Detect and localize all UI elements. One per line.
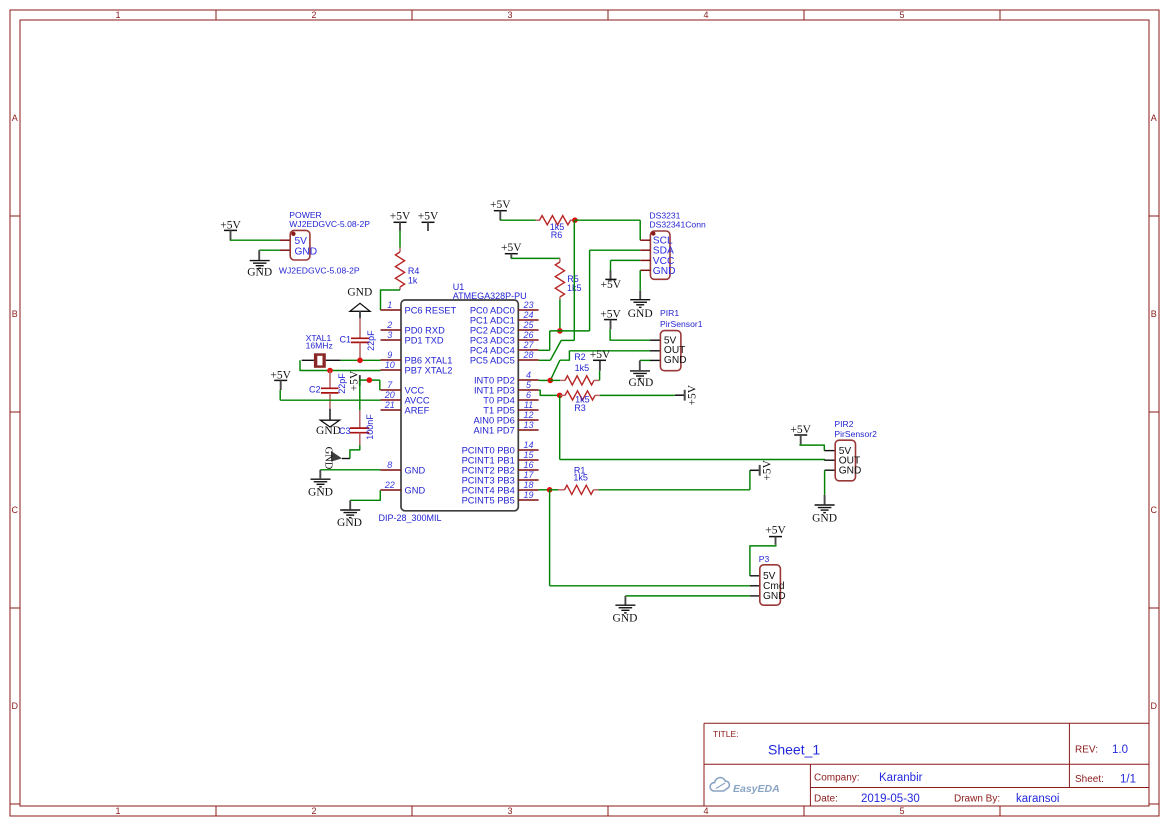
svg-text:5: 5 bbox=[899, 10, 904, 20]
svg-text:11: 11 bbox=[524, 400, 533, 410]
svg-text:GND: GND bbox=[295, 246, 318, 257]
svg-text:PIR1: PIR1 bbox=[660, 308, 679, 318]
svg-text:14: 14 bbox=[523, 440, 533, 450]
svg-text:D: D bbox=[1150, 701, 1157, 711]
svg-text:PD0 RXD: PD0 RXD bbox=[405, 325, 446, 335]
svg-text:GND: GND bbox=[763, 591, 786, 602]
svg-text:22: 22 bbox=[384, 480, 395, 490]
svg-text:16MHz: 16MHz bbox=[306, 341, 333, 351]
svg-text:PirSensor1: PirSensor1 bbox=[660, 319, 703, 329]
svg-text:TITLE:: TITLE: bbox=[713, 729, 739, 739]
svg-text:13: 13 bbox=[523, 420, 533, 430]
svg-text:AREF: AREF bbox=[405, 405, 430, 415]
svg-text:GND: GND bbox=[337, 517, 362, 529]
svg-text:karansoi: karansoi bbox=[1016, 793, 1059, 805]
svg-text:18: 18 bbox=[523, 480, 533, 490]
svg-text:VCC: VCC bbox=[405, 385, 425, 395]
svg-text:EasyEDA: EasyEDA bbox=[733, 783, 780, 795]
svg-text:2: 2 bbox=[311, 10, 316, 20]
svg-text:PC2 ADC2: PC2 ADC2 bbox=[470, 325, 515, 335]
svg-text:DS32341Conn: DS32341Conn bbox=[649, 220, 706, 230]
svg-text:1k: 1k bbox=[408, 275, 418, 285]
svg-text:4: 4 bbox=[703, 10, 708, 20]
svg-text:WJ2EDGVC-5.08-2P: WJ2EDGVC-5.08-2P bbox=[289, 219, 370, 229]
svg-text:C3: C3 bbox=[339, 426, 351, 436]
svg-text:GND: GND bbox=[628, 308, 653, 320]
svg-text:P3: P3 bbox=[759, 554, 770, 564]
svg-text:Date:: Date: bbox=[814, 794, 838, 805]
svg-text:PCINT5 PB5: PCINT5 PB5 bbox=[462, 495, 515, 505]
svg-text:PCINT0 PB0: PCINT0 PB0 bbox=[462, 445, 515, 455]
svg-text:1.0: 1.0 bbox=[1112, 744, 1128, 756]
svg-text:PCINT4 PB4: PCINT4 PB4 bbox=[462, 485, 515, 495]
svg-text:GND: GND bbox=[247, 266, 272, 278]
svg-text:20: 20 bbox=[384, 390, 395, 400]
svg-text:3: 3 bbox=[507, 806, 512, 816]
svg-text:+5V: +5V bbox=[220, 219, 241, 231]
svg-text:3: 3 bbox=[387, 330, 392, 340]
svg-text:2: 2 bbox=[386, 320, 392, 330]
svg-text:PCINT3 PB3: PCINT3 PB3 bbox=[462, 475, 515, 485]
svg-text:22pF: 22pF bbox=[366, 330, 376, 351]
svg-text:T0 PD4: T0 PD4 bbox=[483, 395, 515, 405]
svg-text:28: 28 bbox=[522, 350, 533, 360]
svg-text:R2: R2 bbox=[574, 352, 586, 362]
svg-text:PC5 ADC5: PC5 ADC5 bbox=[470, 355, 515, 365]
svg-text:GND: GND bbox=[613, 613, 638, 625]
svg-text:22pF: 22pF bbox=[337, 373, 347, 394]
svg-text:1: 1 bbox=[115, 806, 120, 816]
svg-text:PC1 ADC1: PC1 ADC1 bbox=[470, 315, 515, 325]
svg-text:1: 1 bbox=[115, 10, 120, 20]
svg-text:PC3 ADC3: PC3 ADC3 bbox=[470, 335, 515, 345]
svg-text:5: 5 bbox=[899, 806, 904, 816]
svg-text:GND: GND bbox=[323, 447, 334, 470]
svg-text:+5V: +5V bbox=[490, 199, 511, 211]
svg-text:+5V: +5V bbox=[418, 211, 439, 223]
svg-text:C: C bbox=[1150, 505, 1157, 515]
svg-text:+5V: +5V bbox=[687, 384, 699, 405]
svg-text:10: 10 bbox=[385, 360, 395, 370]
svg-text:B: B bbox=[12, 309, 18, 319]
svg-text:Company:: Company: bbox=[814, 773, 860, 784]
svg-text:3: 3 bbox=[507, 10, 512, 20]
svg-text:PC4 ADC4: PC4 ADC4 bbox=[470, 345, 515, 355]
svg-text:GND: GND bbox=[405, 465, 426, 475]
svg-text:+5V: +5V bbox=[270, 369, 291, 381]
svg-text:15: 15 bbox=[523, 450, 534, 460]
svg-text:1/1: 1/1 bbox=[1120, 773, 1136, 785]
svg-text:17: 17 bbox=[523, 470, 534, 480]
svg-text:+5V: +5V bbox=[765, 524, 786, 536]
svg-text:AIN1 PD7: AIN1 PD7 bbox=[473, 425, 514, 435]
svg-text:R3: R3 bbox=[574, 403, 586, 413]
svg-text:6: 6 bbox=[526, 390, 531, 400]
svg-text:GND: GND bbox=[628, 377, 653, 389]
svg-text:PIR2: PIR2 bbox=[834, 419, 853, 429]
svg-text:Drawn By:: Drawn By: bbox=[954, 794, 1000, 805]
svg-text:GND: GND bbox=[347, 286, 372, 298]
svg-text:21: 21 bbox=[384, 400, 395, 410]
svg-text:5V: 5V bbox=[295, 236, 308, 247]
svg-text:2: 2 bbox=[311, 806, 316, 816]
svg-text:1k5: 1k5 bbox=[575, 363, 590, 373]
svg-text:19: 19 bbox=[523, 490, 533, 500]
svg-text:23: 23 bbox=[522, 300, 533, 310]
svg-text:GND: GND bbox=[405, 485, 426, 495]
svg-text:+5V: +5V bbox=[349, 370, 361, 391]
svg-text:PirSensor2: PirSensor2 bbox=[834, 429, 877, 439]
svg-text:24: 24 bbox=[522, 310, 533, 320]
svg-text:26: 26 bbox=[522, 330, 533, 340]
svg-text:+5V: +5V bbox=[600, 308, 621, 320]
svg-text:AIN0 PD6: AIN0 PD6 bbox=[473, 415, 514, 425]
svg-text:B: B bbox=[1151, 309, 1157, 319]
svg-text:2019-05-30: 2019-05-30 bbox=[861, 793, 920, 805]
svg-text:GND: GND bbox=[839, 466, 862, 477]
svg-text:PD1 TXD: PD1 TXD bbox=[405, 335, 444, 345]
svg-text:27: 27 bbox=[522, 340, 534, 350]
svg-text:T1 PD5: T1 PD5 bbox=[483, 405, 515, 415]
svg-text:Sheet_1: Sheet_1 bbox=[768, 742, 820, 758]
svg-text:1: 1 bbox=[387, 300, 392, 310]
svg-text:+5V: +5V bbox=[501, 242, 522, 254]
svg-text:Sheet:: Sheet: bbox=[1075, 774, 1104, 785]
svg-text:PB7 XTAL2: PB7 XTAL2 bbox=[405, 365, 453, 375]
svg-text:PCINT2 PB2: PCINT2 PB2 bbox=[462, 465, 515, 475]
svg-text:PC0 ADC0: PC0 ADC0 bbox=[470, 305, 515, 315]
svg-text:C: C bbox=[11, 505, 18, 515]
svg-text:R6: R6 bbox=[551, 230, 563, 240]
svg-text:A: A bbox=[1151, 113, 1157, 123]
svg-text:100nF: 100nF bbox=[365, 414, 375, 440]
svg-text:+5V: +5V bbox=[762, 459, 774, 480]
svg-text:C1: C1 bbox=[340, 335, 352, 345]
svg-text:GND: GND bbox=[316, 425, 341, 437]
svg-text:DIP-28_300MIL: DIP-28_300MIL bbox=[379, 513, 442, 523]
svg-text:PCINT1 PB1: PCINT1 PB1 bbox=[462, 455, 515, 465]
svg-text:A: A bbox=[12, 113, 18, 123]
svg-text:INT1 PD3: INT1 PD3 bbox=[474, 385, 515, 395]
svg-text:+5V: +5V bbox=[601, 279, 622, 291]
svg-text:GND: GND bbox=[664, 355, 687, 366]
svg-text:1k5: 1k5 bbox=[573, 473, 588, 483]
svg-text:12: 12 bbox=[523, 410, 533, 420]
svg-text:GND: GND bbox=[812, 513, 837, 525]
svg-text:PC6 RESET: PC6 RESET bbox=[405, 305, 457, 315]
svg-text:Karanbir: Karanbir bbox=[879, 772, 923, 784]
svg-text:9: 9 bbox=[387, 350, 392, 360]
svg-text:INT0 PD2: INT0 PD2 bbox=[474, 375, 515, 385]
svg-text:AVCC: AVCC bbox=[405, 395, 430, 405]
svg-text:+5V: +5V bbox=[590, 349, 611, 361]
svg-text:4: 4 bbox=[526, 370, 531, 380]
svg-text:4: 4 bbox=[703, 806, 708, 816]
svg-text:+5V: +5V bbox=[390, 211, 411, 223]
svg-text:C2: C2 bbox=[309, 384, 321, 394]
svg-text:8: 8 bbox=[387, 460, 392, 470]
svg-text:D: D bbox=[11, 701, 18, 711]
svg-text:PB6 XTAL1: PB6 XTAL1 bbox=[405, 355, 453, 365]
svg-text:GND: GND bbox=[308, 487, 333, 499]
svg-text:GND: GND bbox=[653, 266, 676, 277]
svg-text:ATMEGA328P-PU: ATMEGA328P-PU bbox=[453, 291, 527, 301]
svg-text:16: 16 bbox=[523, 460, 533, 470]
svg-text:WJ2EDGVC-5.08-2P: WJ2EDGVC-5.08-2P bbox=[279, 265, 360, 275]
svg-text:25: 25 bbox=[522, 320, 534, 330]
svg-text:REV:: REV: bbox=[1075, 745, 1098, 756]
